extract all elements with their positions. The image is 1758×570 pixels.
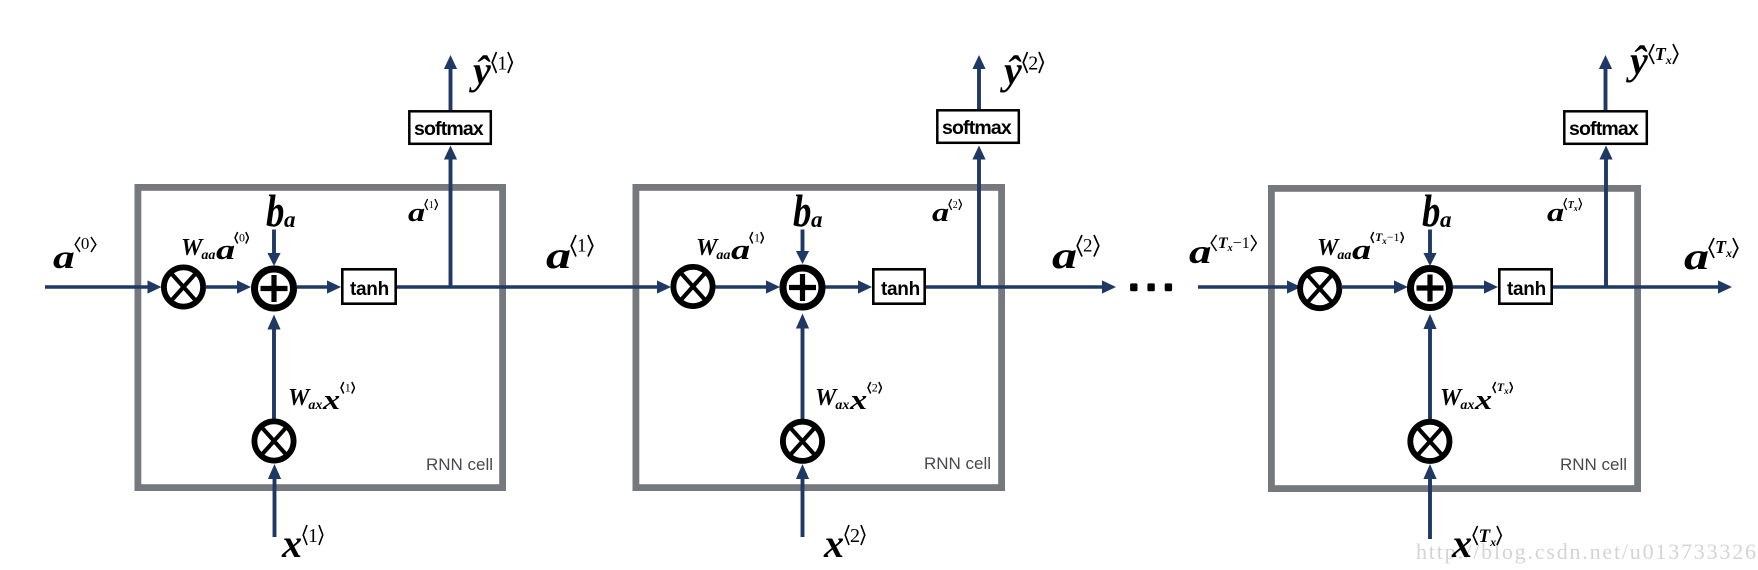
wire M1b up to P1 xyxy=(267,315,280,420)
wire branch2 up to softmax2 xyxy=(972,146,985,288)
label yhatTx xyxy=(1630,41,1679,81)
softmax label 1 xyxy=(414,120,483,140)
softmax box 3 xyxy=(1564,111,1647,144)
wire P1 to tanh1 xyxy=(297,280,341,293)
label a1 inner cell1 xyxy=(408,200,438,226)
multiply node M2b xyxy=(783,422,822,461)
label Wax x2 (cell2) xyxy=(815,379,882,411)
wire x2 input up to M2b xyxy=(796,464,809,537)
RNN cell box 2 xyxy=(636,187,1002,487)
softmax box 2 xyxy=(937,110,1019,143)
multiply node M3a xyxy=(1300,269,1339,308)
label a1 between cells xyxy=(546,237,594,275)
wire softmax1 to yhat1 xyxy=(444,55,457,110)
wire softmax3 to yhatTx xyxy=(1599,55,1612,110)
wire branch3 up to softmax3 xyxy=(1599,146,1612,288)
wire a0 input xyxy=(45,280,162,293)
label ba cell3 xyxy=(1422,188,1452,234)
tanh box 2 xyxy=(873,269,924,303)
multiply node M3b xyxy=(1410,422,1449,461)
dots between cell2 and cell3 xyxy=(1130,283,1172,291)
wire P2 to tanh2 xyxy=(826,280,873,293)
multiply node M2a xyxy=(673,267,712,306)
wire M2a to P2 xyxy=(716,280,781,293)
RNN cell text 2 xyxy=(924,455,991,472)
label Wax x1 (cell1) xyxy=(288,379,355,411)
label Waa aTx-1 (cell3) xyxy=(1317,229,1404,261)
label Wax xTx (cell3) xyxy=(1440,379,1513,411)
tanh label 2 xyxy=(881,280,920,299)
tanh box 1 xyxy=(342,269,395,303)
RNN cell text 3 xyxy=(1560,456,1627,473)
wire M3b up to P3 xyxy=(1423,314,1436,419)
wire M1a to P1 xyxy=(206,280,252,293)
add node P2 xyxy=(783,268,822,307)
wire branch1 up to softmax1 xyxy=(444,146,457,288)
label a2 right of cell2 xyxy=(1052,237,1100,275)
wire aTx-1 into cell3 xyxy=(1198,280,1301,293)
add node P1 xyxy=(255,269,294,308)
wire softmax2 to yhat2 xyxy=(972,55,985,109)
softmax label 2 xyxy=(942,119,1011,139)
wire x1 input up to M1b xyxy=(268,464,281,537)
watermark xyxy=(1416,541,1758,563)
label x1 xyxy=(282,524,324,564)
label ba cell1 xyxy=(266,188,296,234)
softmax label 3 xyxy=(1569,120,1638,140)
wire P3 to tanh3 xyxy=(1453,280,1499,293)
wire xTx input up to M3b xyxy=(1423,464,1436,539)
label a2 inner cell2 xyxy=(932,200,962,226)
multiply node M1a xyxy=(164,267,203,306)
wire tanh1 to cell2 (a1) xyxy=(397,280,671,293)
label x2 xyxy=(824,524,866,564)
RNN cell text 1 xyxy=(426,456,493,473)
wire tanh2 out to dots xyxy=(926,280,1116,293)
tanh box 3 xyxy=(1499,269,1551,303)
tanh label 1 xyxy=(350,280,389,299)
label xTx xyxy=(1452,524,1503,564)
multiply node M1b xyxy=(254,421,293,460)
label aTx right of cell3 xyxy=(1684,238,1739,276)
wire M3a to P3 xyxy=(1341,280,1408,293)
wire ba3 down to P3 xyxy=(1423,230,1436,267)
label aTx inner cell3 xyxy=(1547,200,1582,226)
label yhat1 xyxy=(473,51,514,91)
wire tanh3 out aTx xyxy=(1553,280,1732,293)
label Waa a0 (cell1) xyxy=(181,229,249,261)
label aTx-1 before cell3 xyxy=(1189,236,1257,270)
RNN cell box 1 xyxy=(138,187,503,487)
label ba cell2 xyxy=(793,188,823,234)
wire M2b up to P2 xyxy=(796,314,809,420)
label yhat2 xyxy=(1004,51,1045,91)
label a0 xyxy=(53,242,97,275)
add node P3 xyxy=(1411,269,1450,308)
RNN cell box 3 xyxy=(1271,188,1637,488)
wire ba1 down to P1 xyxy=(267,230,280,267)
wire ba2 down to P2 xyxy=(796,230,809,265)
softmax box 1 xyxy=(409,111,491,144)
tanh label 3 xyxy=(1507,280,1546,299)
label Waa a1 (cell2) xyxy=(696,229,764,261)
